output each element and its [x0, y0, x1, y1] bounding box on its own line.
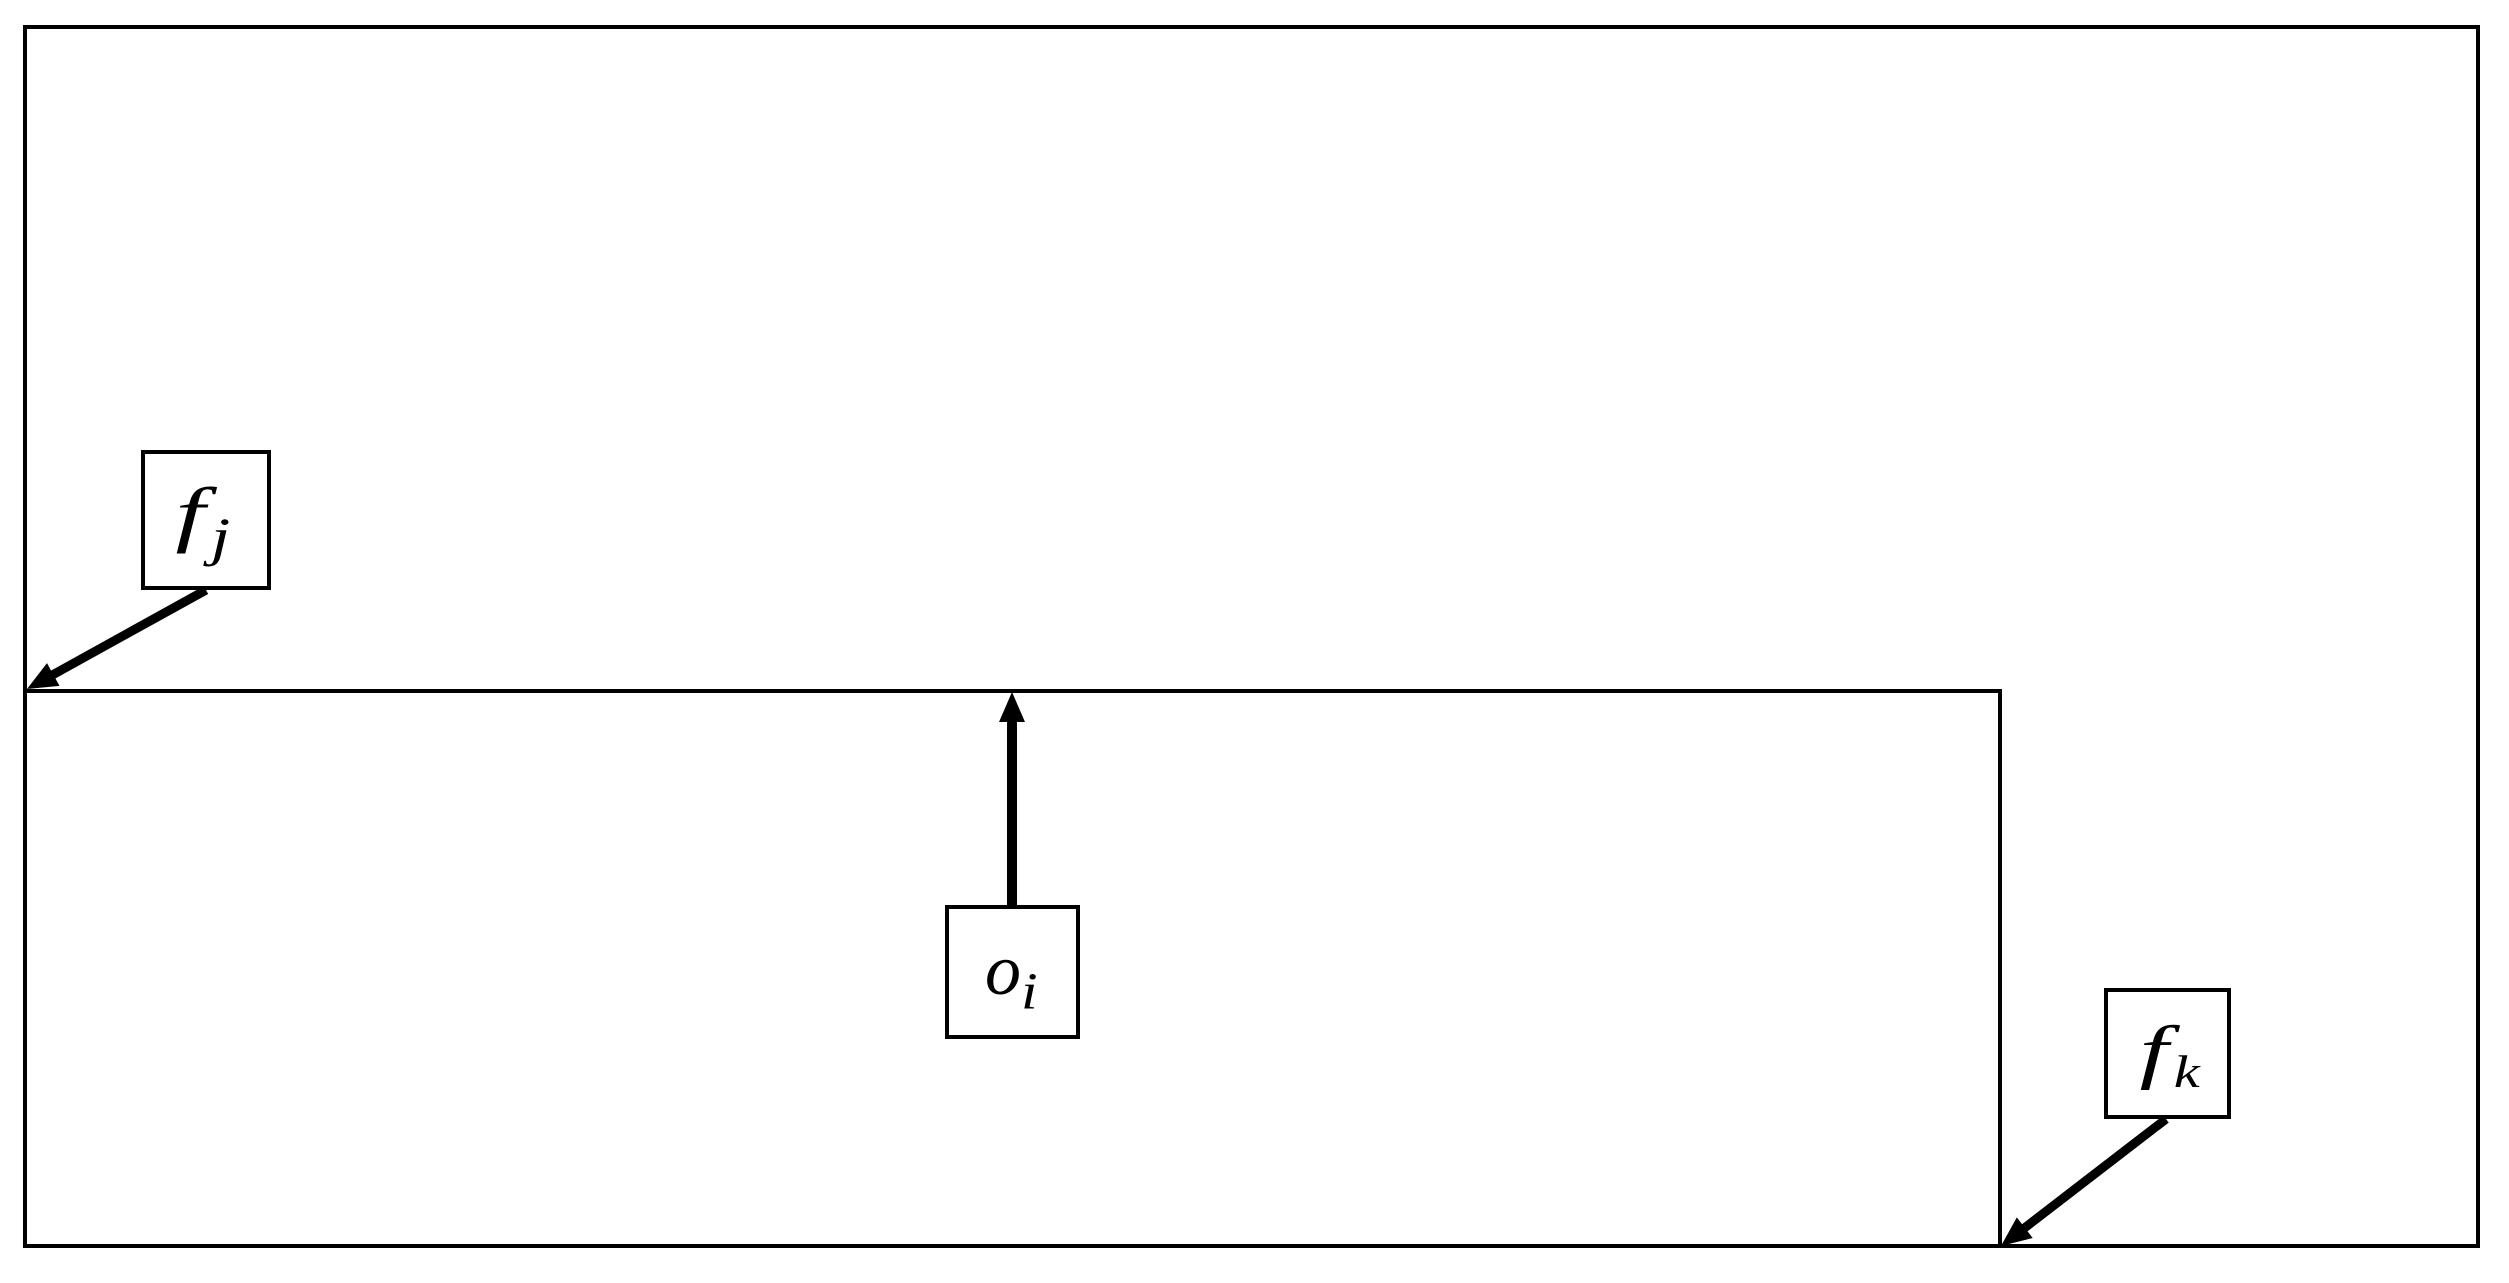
node f_k: label box	[2106, 990, 2229, 1117]
node o_i: label box	[947, 907, 1078, 1037]
wire: arrow from f_k box to bottom-right corner of object region	[2020, 1119, 2166, 1231]
object region o_i rectangle (top and right edges)	[25, 691, 2000, 1246]
svg-text:i: i	[1021, 963, 1038, 1021]
svg-text:k: k	[2174, 1048, 2201, 1097]
svg-text:o: o	[985, 930, 1021, 1010]
node f_j: label box	[143, 452, 269, 588]
wire: arrow from o_i box up to top edge of object region	[1007, 716, 1017, 906]
wire: arrow from f_j box to top-left corner of object region	[48, 590, 206, 677]
